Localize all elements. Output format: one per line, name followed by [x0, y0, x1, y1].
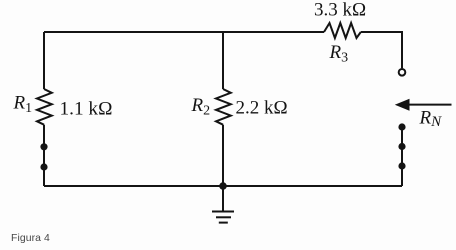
wire R3 to terminal [361, 32, 402, 68]
wire ground stem [222, 186, 224, 211]
wire bottom rail [44, 185, 402, 187]
node dot left lower [40, 163, 47, 170]
junction dot bottom middle [219, 182, 227, 190]
wire middle branch lower [222, 125, 224, 186]
wire top rail middle [223, 31, 324, 33]
svg-text:Figura 4: Figura 4 [11, 233, 50, 244]
svg-text:R2: R2 [191, 95, 211, 119]
svg-text:R3: R3 [329, 42, 349, 66]
wire left branch upper [43, 32, 45, 89]
resistor R2 [216, 89, 231, 125]
wire middle branch upper [222, 32, 224, 89]
node dot right bottom [398, 162, 405, 169]
svg-text:2.2 kΩ: 2.2 kΩ [236, 97, 288, 118]
arrow RN [395, 99, 452, 111]
resistor R1 [37, 89, 52, 125]
svg-text:RN: RN [419, 107, 443, 130]
node dot left upper [40, 143, 47, 150]
wire top rail left [44, 31, 223, 33]
open terminal [399, 69, 406, 76]
wire left branch lower [43, 125, 45, 186]
node dot right top [398, 123, 405, 130]
wire right branch [401, 127, 403, 186]
node dot right middle [398, 143, 405, 150]
svg-text:1.1 kΩ: 1.1 kΩ [60, 99, 113, 120]
resistor R3 [324, 23, 361, 38]
ground [212, 212, 234, 223]
svg-text:R1: R1 [13, 93, 33, 117]
svg-text:3.3 kΩ: 3.3 kΩ [314, 0, 366, 21]
